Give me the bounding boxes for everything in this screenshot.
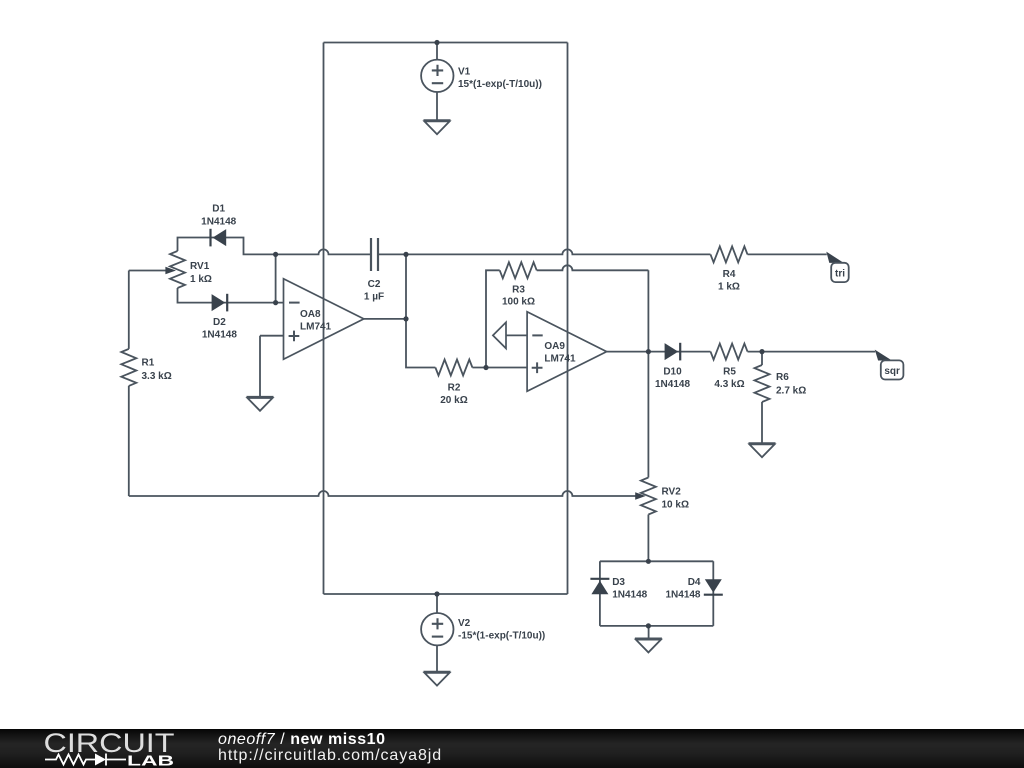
op-amp OA9 bbox=[527, 312, 607, 392]
op-amp OA8 bbox=[284, 279, 364, 360]
svg-text:OA8: OA8 bbox=[300, 309, 321, 320]
node sqr flag and box bbox=[875, 350, 904, 380]
svg-text:OA9: OA9 bbox=[544, 341, 565, 352]
svg-text:V2: V2 bbox=[458, 618, 471, 629]
label RV2 value bbox=[662, 486, 689, 510]
wire right rail bbox=[567, 43, 569, 595]
label V2 value bbox=[458, 618, 545, 641]
wire R6 top lead bbox=[761, 352, 763, 365]
ground below V1 bbox=[424, 120, 451, 134]
wire node A to node B vertical bbox=[275, 254, 277, 302]
label C2 value bbox=[364, 279, 384, 303]
svg-text:R3: R3 bbox=[512, 284, 525, 295]
diode D10 bbox=[665, 343, 681, 361]
wire C2 node down to R2 bbox=[406, 254, 435, 367]
svg-text:D1: D1 bbox=[212, 204, 225, 215]
wire top rail bbox=[324, 42, 568, 44]
svg-text:2.7 kΩ: 2.7 kΩ bbox=[776, 386, 806, 397]
junction dot C2 right bbox=[403, 252, 408, 257]
resistor R3 bbox=[500, 262, 537, 278]
footer breadcrumb bbox=[218, 731, 386, 749]
junction dot D3 D4 box top bbox=[646, 559, 651, 564]
svg-text:D4: D4 bbox=[688, 577, 701, 588]
label R5 value bbox=[714, 367, 744, 391]
capacitor C2 bbox=[371, 238, 378, 271]
wire left rail bbox=[323, 43, 325, 595]
wire R3 left vertical bbox=[486, 270, 500, 367]
svg-text:R1: R1 bbox=[142, 357, 155, 368]
label OA9 value bbox=[544, 341, 576, 365]
potentiometer RV2 bbox=[641, 478, 656, 515]
svg-text:1N4148: 1N4148 bbox=[655, 379, 690, 390]
junction node A bbox=[273, 252, 278, 257]
label D1 value bbox=[201, 204, 236, 228]
junction dot OA8 output bbox=[403, 316, 408, 321]
wire D3 D4 box bbox=[600, 561, 713, 626]
wire OA9 minus stub bbox=[506, 334, 527, 336]
node tri flag and box bbox=[826, 252, 848, 282]
wire D3 D4 ground stem bbox=[648, 626, 650, 639]
wire OA8 plus stub bbox=[260, 335, 284, 337]
wire D1 branch bbox=[178, 238, 276, 255]
label D3 value bbox=[612, 577, 647, 601]
label D4 value bbox=[665, 577, 700, 601]
wire RV1 wiper to R1 bbox=[128, 271, 130, 349]
wire bottom run to RV2 (hops left and right rails) bbox=[129, 491, 636, 496]
potentiometer RV1 bbox=[170, 251, 185, 288]
svg-text:1N4148: 1N4148 bbox=[201, 216, 236, 227]
junction dot OA9 output right column bbox=[646, 349, 651, 354]
ground below OA8 bbox=[247, 397, 274, 411]
svg-text:R6: R6 bbox=[776, 372, 789, 383]
svg-text:D2: D2 bbox=[213, 317, 226, 328]
svg-text:LAB: LAB bbox=[127, 753, 174, 768]
svg-text:RV2: RV2 bbox=[662, 486, 682, 497]
wire V2 bottom stem bbox=[436, 645, 438, 671]
resistor R6 bbox=[755, 365, 770, 402]
label R1 value bbox=[142, 357, 172, 382]
wire R2 to OA9 plus bbox=[472, 367, 527, 369]
svg-text:20 kΩ: 20 kΩ bbox=[440, 395, 467, 406]
resistor R1 bbox=[121, 349, 136, 386]
wire OA9 output to R5 bbox=[606, 351, 710, 353]
svg-text:D3: D3 bbox=[612, 577, 625, 588]
diode D3 bbox=[590, 579, 609, 594]
wire V1 bottom stem bbox=[436, 92, 438, 120]
label R6 value bbox=[776, 372, 806, 397]
ground below R6 bbox=[749, 443, 776, 457]
wire C2 right to R4 (hops right rail) bbox=[378, 249, 711, 254]
svg-text:4.3 kΩ: 4.3 kΩ bbox=[714, 379, 744, 390]
svg-text:RV1: RV1 bbox=[190, 261, 210, 272]
CircuitLab logo resistor diode glyph bbox=[45, 754, 126, 766]
svg-text:LM741: LM741 bbox=[544, 354, 576, 365]
svg-text:V1: V1 bbox=[458, 67, 471, 78]
footer bar bbox=[0, 729, 1024, 768]
svg-text:R2: R2 bbox=[448, 383, 461, 394]
label R2 value bbox=[440, 383, 467, 407]
junction node B bbox=[273, 300, 278, 305]
junction dot V2 bottom rail bbox=[434, 591, 439, 596]
diode D2 bbox=[212, 294, 228, 312]
svg-text:1N4148: 1N4148 bbox=[202, 330, 237, 341]
svg-text:R4: R4 bbox=[723, 269, 736, 280]
svg-text:15*(1-exp(-T/10u)): 15*(1-exp(-T/10u)) bbox=[458, 79, 542, 90]
wire R4 to tri bbox=[748, 253, 827, 255]
junction dot R5 R6 bbox=[759, 349, 764, 354]
svg-text:3.3 kΩ: 3.3 kΩ bbox=[142, 371, 172, 382]
resistor R4 bbox=[711, 246, 748, 262]
wire D2 branch bbox=[178, 288, 284, 303]
wire right column to RV2 bbox=[647, 270, 649, 477]
resistor R2 bbox=[435, 360, 472, 376]
op-amp OA9 minus input open arrow bbox=[493, 322, 506, 348]
voltage source V2 bbox=[421, 613, 453, 645]
voltage source V1 bbox=[421, 60, 453, 92]
label OA8 value bbox=[300, 309, 332, 333]
wire V2 top stem bbox=[436, 594, 438, 613]
svg-text:R5: R5 bbox=[723, 367, 736, 378]
label R3 value bbox=[502, 284, 535, 307]
wire OA8 output bbox=[364, 318, 406, 320]
potentiometer RV1 wiper arrow bbox=[165, 267, 176, 274]
label V1 value bbox=[458, 67, 542, 91]
svg-text:1N4148: 1N4148 bbox=[612, 590, 647, 601]
svg-text:C2: C2 bbox=[368, 279, 381, 290]
ground below D3 D4 box bbox=[635, 638, 662, 652]
diode D1 bbox=[211, 229, 227, 247]
wire node A to C2 left (hops left rail) bbox=[276, 249, 371, 254]
svg-text:1 µF: 1 µF bbox=[364, 292, 384, 303]
wire V1 top stem bbox=[436, 43, 438, 60]
svg-text:1 kΩ: 1 kΩ bbox=[718, 281, 740, 292]
svg-text:1N4148: 1N4148 bbox=[665, 590, 700, 601]
wire RV1 wiper lead bbox=[129, 270, 166, 272]
svg-text:-15*(1-exp(-T/10u)): -15*(1-exp(-T/10u)) bbox=[458, 630, 545, 641]
junction dot D3 D4 box bottom bbox=[646, 623, 651, 628]
wire R1 bottom to bottom run bbox=[128, 386, 130, 496]
footer url bbox=[218, 747, 442, 765]
svg-text:LM741: LM741 bbox=[300, 322, 332, 333]
diode D4 bbox=[704, 579, 723, 595]
junction dot R2 OA9 plus bbox=[483, 365, 488, 370]
junction dot V1 top rail bbox=[434, 40, 439, 45]
CircuitLab logo wordmark bbox=[44, 728, 175, 768]
svg-text:100 kΩ: 100 kΩ bbox=[502, 297, 535, 308]
svg-text:D10: D10 bbox=[663, 367, 682, 378]
svg-text:10 kΩ: 10 kΩ bbox=[662, 500, 689, 511]
ground below V2 bbox=[424, 672, 451, 686]
wire R3 right to right column (hops right rail) bbox=[537, 265, 649, 270]
label RV1 value bbox=[190, 261, 212, 285]
wire R6 bottom lead bbox=[761, 402, 763, 443]
wire bottom rail bbox=[324, 593, 568, 595]
svg-text:sqr: sqr bbox=[884, 366, 900, 377]
potentiometer RV2 wiper arrow bbox=[635, 492, 645, 499]
wire R5 to sqr bbox=[748, 351, 876, 353]
label D10 value bbox=[655, 367, 690, 391]
wire RV2 to D3 D4 box bbox=[647, 515, 649, 562]
svg-text:tri: tri bbox=[835, 268, 845, 279]
label R4 value bbox=[718, 269, 740, 292]
svg-text:1 kΩ: 1 kΩ bbox=[190, 274, 212, 285]
resistor R5 bbox=[711, 344, 748, 360]
label D2 value bbox=[202, 317, 237, 341]
wire OA8 ground stem bbox=[259, 336, 261, 397]
